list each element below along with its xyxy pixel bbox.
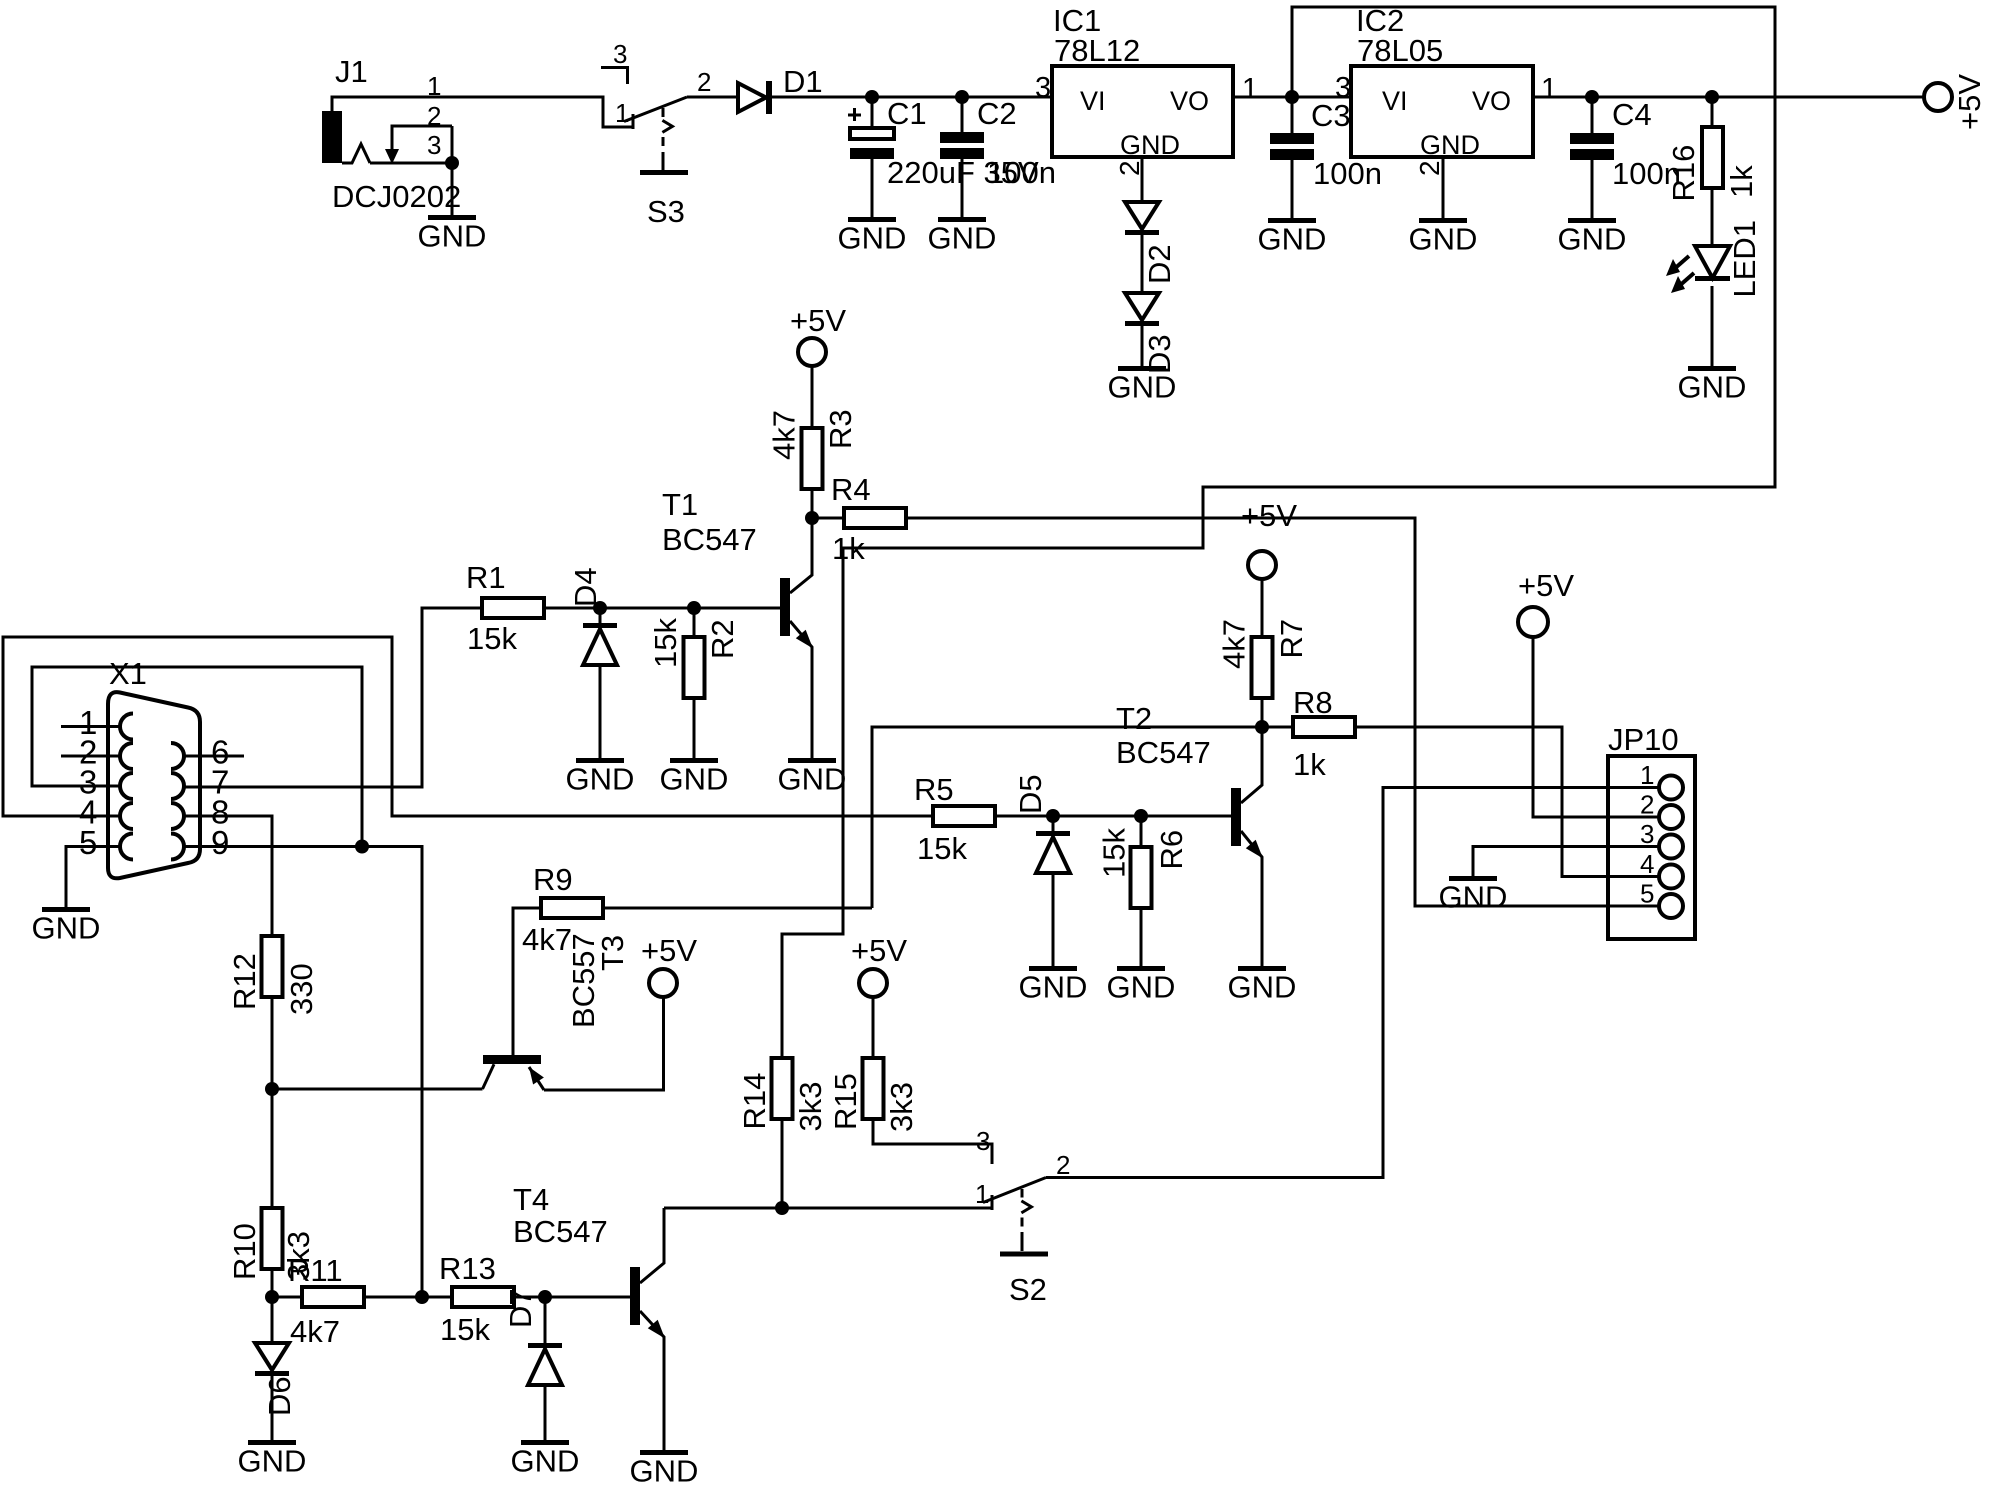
- capacitor C1 (electrolytic): [848, 97, 894, 217]
- wire IC2 GND pin to ground: [1442, 157, 1445, 218]
- svg-text:T3: T3: [595, 935, 630, 971]
- junction R10/R11/D6 node: [265, 1290, 279, 1304]
- svg-text:VO: VO: [1170, 86, 1209, 116]
- svg-text:100n: 100n: [1313, 156, 1382, 191]
- wire +5V to R7: [1261, 579, 1264, 637]
- capacitor C3: [1291, 97, 1294, 133]
- svg-text:R11: R11: [288, 1253, 343, 1288]
- X1 pin 7 wire (to R1 net): [182, 786, 183, 789]
- +5V terminal +5V main: [1924, 83, 1952, 111]
- svg-text:3: 3: [1035, 72, 1051, 104]
- svg-text:5: 5: [79, 824, 97, 861]
- wire D5 node down: [1052, 816, 1055, 831]
- switch S2 pin1 tick: [991, 1195, 994, 1210]
- svg-text:R13: R13: [439, 1251, 496, 1286]
- switch S2 actuator: [1000, 1189, 1048, 1257]
- ground D4: [566, 758, 635, 797]
- J1 pin 2 switch arm with arrow: [385, 126, 452, 164]
- svg-text:2: 2: [697, 67, 711, 97]
- switch S3 pin 3 stub: [601, 68, 628, 85]
- resistor R14 body: [772, 1058, 793, 1119]
- wire T4 collector to S2 pin 1: [664, 1207, 992, 1210]
- junction D5 node: [1046, 809, 1060, 823]
- resistor R12 body: [262, 936, 283, 997]
- ground IC2: [1409, 218, 1478, 257]
- X1 pin 8 contact: [171, 803, 184, 829]
- svg-text:+5V: +5V: [1241, 498, 1297, 533]
- LED LED1: [1666, 246, 1730, 293]
- switch S3 blade: [624, 97, 687, 122]
- switch S2 blade: [983, 1178, 1046, 1203]
- svg-text:+5V: +5V: [641, 933, 697, 968]
- svg-text:VO: VO: [1472, 86, 1511, 116]
- svg-text:GND: GND: [1258, 222, 1327, 257]
- svg-text:1: 1: [615, 98, 629, 128]
- wire J1 pin1 to switch S3 pin1: [332, 97, 633, 127]
- wire D6 to GND: [271, 1376, 274, 1440]
- svg-text:2: 2: [1114, 160, 1145, 176]
- junction D4 node: [593, 601, 607, 615]
- ground D6: [238, 1440, 307, 1479]
- svg-text:D6: D6: [262, 1376, 297, 1416]
- wire D4 node down: [599, 608, 602, 623]
- svg-text:GND: GND: [566, 762, 635, 797]
- svg-text:1: 1: [1242, 73, 1258, 105]
- svg-text:4k7: 4k7: [1217, 619, 1252, 669]
- junction X1 pin3/pin9 junction: [355, 840, 369, 854]
- JP10 pin 1 contact: [1659, 776, 1683, 800]
- svg-text:1k: 1k: [832, 531, 865, 566]
- T1 emitter wire with arrow: [790, 621, 813, 758]
- svg-text:R2: R2: [705, 619, 740, 659]
- svg-text:GND: GND: [1678, 370, 1747, 405]
- wire R6 node down: [1140, 816, 1143, 847]
- ground D3: [1108, 366, 1177, 405]
- X1 pin 7 contact: [171, 773, 184, 799]
- connector J1 DC jack body: [322, 111, 370, 163]
- svg-text:15k: 15k: [648, 618, 683, 668]
- svg-text:D2: D2: [1142, 244, 1177, 284]
- svg-text:GND: GND: [32, 911, 101, 946]
- ground D5: [1019, 966, 1088, 1005]
- T4 collector wire: [640, 1208, 664, 1283]
- svg-text:D1: D1: [783, 64, 823, 99]
- resistor R7 body: [1252, 637, 1273, 698]
- svg-text:1k: 1k: [1724, 165, 1759, 198]
- JP10 pin 2 contact: [1659, 805, 1683, 829]
- wire node to R4: [812, 517, 844, 520]
- wire node to R13: [422, 1296, 452, 1299]
- T3 collector wire: [483, 1064, 495, 1089]
- X1 pin 2 contact: [120, 743, 133, 769]
- svg-text:5: 5: [1640, 879, 1654, 909]
- JP10 pin 3 contact: [1659, 835, 1683, 859]
- svg-text:R4: R4: [831, 472, 871, 507]
- svg-text:3: 3: [976, 1126, 990, 1156]
- JP10 pin 5 contact: [1659, 894, 1683, 918]
- IC2 78L05 voltage regulator: [1351, 66, 1533, 157]
- wire R15 to S2 pin 3: [873, 1119, 992, 1164]
- svg-text:3: 3: [613, 39, 627, 69]
- T1 collector wire: [790, 518, 812, 593]
- svg-text:4: 4: [1640, 849, 1654, 879]
- wire R2 node down: [693, 608, 696, 637]
- transistor T4 (NPN): [630, 1267, 640, 1325]
- junction R6 node: [1134, 809, 1148, 823]
- junction T2 collector node: [1255, 720, 1269, 734]
- svg-text:100n: 100n: [987, 155, 1056, 190]
- svg-text:J1: J1: [335, 54, 368, 89]
- wire D7 node to T4 base: [545, 1296, 630, 1299]
- wire S3 pin2 to diode D1: [687, 96, 738, 99]
- svg-text:3: 3: [427, 130, 441, 160]
- ground T4: [630, 1450, 699, 1489]
- transistor T3 (PNP BC557) base bar: [483, 1055, 541, 1064]
- svg-text:R10: R10: [227, 1223, 262, 1280]
- wire R10 to R11 node: [271, 1269, 274, 1297]
- junction C3 node: [1285, 90, 1299, 104]
- T3 emitter wire with arrow: [529, 1067, 544, 1090]
- diode D2: [1125, 202, 1159, 235]
- X1 pin 9 contact: [171, 834, 184, 860]
- T2 collector wire: [1241, 727, 1262, 803]
- resistor R5 body: [933, 806, 995, 826]
- resistor R2 body: [684, 637, 705, 698]
- svg-text:GND: GND: [1019, 970, 1088, 1005]
- wire R5 to T2 base: [995, 815, 1231, 818]
- svg-text:+5V: +5V: [851, 933, 907, 968]
- wire C3 to GND: [1291, 160, 1294, 218]
- svg-text:VI: VI: [1080, 86, 1106, 116]
- ground C1: [838, 217, 907, 256]
- wire R16 to LED1: [1711, 188, 1714, 246]
- wire D7 to GND: [544, 1385, 547, 1440]
- capacitor C3 body: [1270, 133, 1314, 160]
- svg-text:4k7: 4k7: [767, 410, 802, 460]
- svg-text:R7: R7: [1274, 619, 1309, 659]
- svg-text:GND: GND: [630, 1454, 699, 1489]
- connector X1 (DB9) body: [108, 692, 200, 878]
- svg-text:GND: GND: [1228, 970, 1297, 1005]
- wire S2 pin2 up to JP10 pin 1: [1046, 788, 1659, 1178]
- ground JP10: [1439, 876, 1508, 915]
- svg-text:+5V: +5V: [1952, 74, 1987, 130]
- ground C3: [1258, 218, 1327, 257]
- svg-text:X1: X1: [109, 656, 147, 691]
- junction C4 node: [1585, 90, 1599, 104]
- svg-text:78L12: 78L12: [1054, 33, 1140, 68]
- +5V terminal T1 pull-up +5V: [798, 338, 826, 366]
- svg-text:T4: T4: [513, 1182, 549, 1217]
- resistor R15 body: [863, 1058, 884, 1119]
- junction D7/T4 base node: [538, 1290, 552, 1304]
- wire R6 to GND: [1140, 908, 1143, 966]
- capacitor C4 body: [1570, 133, 1614, 160]
- svg-text:+5V: +5V: [790, 303, 846, 338]
- svg-text:3k3: 3k3: [793, 1082, 828, 1132]
- wire D1 to IC1 VI (pin 3): [769, 96, 1052, 99]
- wire R9 to T3 base: [513, 908, 541, 1055]
- svg-text:GND: GND: [660, 762, 729, 797]
- IC1 78L12 voltage regulator: [1052, 66, 1233, 157]
- X1 pin 3 contact: [120, 773, 133, 799]
- X1 pin 5 contact: [120, 834, 133, 860]
- wire R4 to JP10 pin 5: [906, 518, 1659, 906]
- X1 pin 8 wire to R12: [182, 816, 272, 936]
- ground LED1: [1678, 366, 1747, 405]
- svg-text:S3: S3: [647, 194, 685, 229]
- junction C1 node: [865, 90, 879, 104]
- svg-text:2: 2: [1640, 790, 1654, 820]
- ground C2: [928, 217, 997, 256]
- wire IC2 VO to +5V terminal: [1533, 96, 1924, 99]
- svg-text:R8: R8: [1293, 685, 1333, 720]
- svg-text:+5V: +5V: [1518, 568, 1574, 603]
- svg-text:1: 1: [975, 1179, 989, 1209]
- wire JP10 pin 3 to GND: [1473, 847, 1659, 877]
- +5V terminal R15 +5V: [859, 969, 887, 997]
- capacitor C4: [1591, 97, 1594, 133]
- svg-text:S2: S2: [1009, 1272, 1047, 1307]
- diode D1: [738, 81, 769, 114]
- ground C4: [1558, 218, 1627, 257]
- ground R6: [1107, 966, 1176, 1005]
- ground J1: [418, 215, 487, 254]
- svg-text:78L05: 78L05: [1357, 33, 1443, 68]
- svg-text:15k: 15k: [467, 621, 517, 656]
- svg-text:GND: GND: [1420, 130, 1480, 160]
- svg-text:GND: GND: [1120, 130, 1180, 160]
- svg-text:15k: 15k: [917, 831, 967, 866]
- svg-text:R9: R9: [533, 862, 573, 897]
- wire node down to R10: [271, 1089, 274, 1208]
- resistor R4 body: [844, 508, 906, 528]
- wire +5V to R3: [811, 366, 814, 428]
- wire R11 node to R11: [272, 1296, 302, 1299]
- svg-text:GND: GND: [838, 221, 907, 256]
- svg-text:2: 2: [1056, 1150, 1070, 1180]
- wire R8 to JP10 pin 4: [1355, 727, 1659, 877]
- svg-text:LED1: LED1: [1727, 220, 1762, 298]
- transistor T1 (NPN): [780, 578, 790, 636]
- switch S3 actuator: [640, 108, 688, 175]
- transistor T2 (NPN): [1231, 788, 1241, 846]
- capacitor C2: [961, 97, 964, 132]
- diode D7: [528, 1343, 562, 1385]
- diode D5: [1036, 831, 1070, 873]
- connector JP10 body: [1608, 756, 1695, 939]
- svg-text:15k: 15k: [1097, 828, 1132, 878]
- svg-text:1k: 1k: [1293, 747, 1326, 782]
- wire T2 collector node to R8: [1262, 726, 1293, 729]
- svg-text:JP10: JP10: [1608, 722, 1679, 757]
- svg-text:9: 9: [211, 824, 229, 861]
- svg-text:3: 3: [1335, 72, 1351, 104]
- svg-text:R15: R15: [828, 1073, 863, 1130]
- junction T3 collector node: [265, 1082, 279, 1096]
- X1 pin 6 stub wire: [182, 755, 244, 758]
- wire T3 collector to R10/R12 node: [272, 1088, 483, 1091]
- wire R3 to T1 collector node: [811, 489, 814, 518]
- wire C2 to GND: [961, 159, 964, 217]
- junction R2 node: [687, 601, 701, 615]
- svg-text:D7: D7: [503, 1288, 538, 1328]
- svg-text:D5: D5: [1013, 774, 1048, 814]
- wire +12V rail loop (C3 node up and over to R4 net): [782, 7, 1775, 1058]
- svg-text:GND: GND: [1558, 222, 1627, 257]
- svg-text:C1: C1: [887, 96, 927, 131]
- diode D6: [255, 1343, 289, 1376]
- diode D3: [1125, 293, 1159, 326]
- svg-text:4k7: 4k7: [522, 922, 572, 957]
- wire R2 to GND: [693, 698, 696, 758]
- X1 pin 4 contact: [120, 803, 133, 829]
- resistor R11 body: [302, 1287, 364, 1307]
- svg-text:4k7: 4k7: [290, 1314, 340, 1349]
- svg-text:GND: GND: [1107, 970, 1176, 1005]
- resistor R1 body: [482, 598, 544, 618]
- svg-text:DCJ0202: DCJ0202: [332, 179, 461, 214]
- X1 pin 6 contact: [171, 743, 184, 769]
- wire IC1 VO to C3 node: [1233, 96, 1351, 99]
- junction J1 pin2/3 junction: [445, 156, 459, 170]
- svg-text:15k: 15k: [440, 1312, 490, 1347]
- ground X1 pin5: [32, 907, 101, 946]
- wire D4 to GND: [599, 665, 602, 758]
- svg-text:GND: GND: [778, 762, 847, 797]
- ground D7: [511, 1440, 580, 1479]
- ground R2: [660, 758, 729, 797]
- diode D4: [583, 623, 617, 665]
- X1 pin 3 wire loop to pin 9 net: [32, 667, 362, 847]
- svg-text:1: 1: [1640, 760, 1654, 790]
- svg-text:2: 2: [427, 101, 441, 131]
- wire R1 to T1 base: [544, 607, 780, 610]
- svg-text:R5: R5: [914, 772, 954, 807]
- wire D2 to D3: [1141, 235, 1144, 293]
- resistor R6 body: [1131, 847, 1152, 908]
- svg-text:1: 1: [1541, 73, 1557, 105]
- T4 emitter wire with arrow: [640, 1311, 665, 1450]
- X1 pin 9 wire down to R11 net: [182, 847, 422, 1298]
- svg-text:3k3: 3k3: [884, 1082, 919, 1132]
- JP10 pin 4 contact: [1659, 865, 1683, 889]
- X1 pin 4 wire loop to R5: [3, 637, 933, 816]
- svg-text:VI: VI: [1382, 86, 1408, 116]
- svg-text:GND: GND: [1108, 370, 1177, 405]
- +5V terminal R7 +5V: [1248, 551, 1276, 579]
- junction C2 node: [955, 90, 969, 104]
- svg-text:R12: R12: [227, 953, 262, 1010]
- svg-text:D4: D4: [568, 567, 603, 607]
- resistor R16 body: [1702, 127, 1723, 188]
- +5V terminal JP10 +5V: [1518, 607, 1548, 637]
- X1 pin 5 wire to GND: [66, 847, 122, 908]
- resistor R13 body: [452, 1287, 514, 1307]
- svg-text:GND: GND: [1409, 222, 1478, 257]
- ground T1: [778, 758, 847, 797]
- T2 emitter wire with arrow: [1241, 831, 1263, 966]
- wire T3 emitter to +5V: [544, 997, 664, 1090]
- svg-text:R3: R3: [823, 409, 858, 449]
- wire X1 pin7 to R1: [183, 608, 482, 787]
- svg-text:2: 2: [1414, 160, 1445, 176]
- svg-text:GND: GND: [418, 219, 487, 254]
- svg-text:BC547: BC547: [1116, 735, 1211, 770]
- svg-text:BC547: BC547: [513, 1214, 608, 1249]
- svg-text:T2: T2: [1116, 701, 1152, 736]
- X1 pin 1 stub wire: [61, 725, 122, 728]
- wire LED1 to GND: [1711, 286, 1714, 366]
- wire R9 to T2 collector net: [603, 907, 872, 910]
- wire T2 collector net to R9 (left drop): [872, 727, 1262, 908]
- junction R11/R13 node: [415, 1290, 429, 1304]
- svg-text:GND: GND: [238, 1444, 307, 1479]
- junction R14/T4/S2 node: [775, 1201, 789, 1215]
- junction R16 node: [1705, 90, 1719, 104]
- wire R14 to T4 collector net: [781, 1119, 784, 1208]
- wire R16 node down to R16: [1711, 97, 1714, 127]
- junction T1 collector node: [805, 511, 819, 525]
- wire J1 pin 3 to ground node: [370, 162, 452, 165]
- wire R12 to T3 collector node: [271, 997, 274, 1089]
- resistor R9 body: [541, 898, 603, 918]
- svg-text:330: 330: [284, 963, 319, 1015]
- wire D5 to GND: [1052, 873, 1055, 966]
- capacitor C2 body: [940, 132, 984, 159]
- wire J1 pins 2/3 down to GND: [451, 126, 454, 215]
- wire D3 to GND: [1141, 326, 1144, 366]
- X1 pin 1 contact: [120, 714, 133, 740]
- resistor R8 body: [1293, 717, 1355, 737]
- ground T2: [1228, 966, 1297, 1005]
- wire +5V to JP10 pin 2: [1533, 637, 1659, 817]
- wire D7 node down: [544, 1297, 547, 1343]
- svg-text:R1: R1: [466, 560, 506, 595]
- svg-text:R6: R6: [1154, 830, 1189, 870]
- switch S3 pin1 tick: [632, 114, 635, 129]
- wire R7 to T2 collector node: [1261, 698, 1264, 727]
- resistor R10 body: [262, 1208, 283, 1269]
- wire R13 to D7 node: [514, 1296, 545, 1299]
- wire +5V to R15: [872, 997, 875, 1058]
- svg-text:C4: C4: [1612, 97, 1652, 132]
- svg-text:R14: R14: [737, 1073, 772, 1130]
- svg-text:GND: GND: [928, 221, 997, 256]
- resistor R3 body: [802, 428, 823, 489]
- svg-text:3: 3: [1640, 819, 1654, 849]
- wire IC1 GND pin to D2: [1141, 157, 1144, 202]
- wire R11 to pin9-net node: [364, 1296, 422, 1299]
- wire C4 to GND: [1591, 160, 1594, 218]
- svg-text:BC547: BC547: [662, 522, 757, 557]
- X1 pin 2 stub wire: [61, 755, 122, 758]
- svg-text:R16: R16: [1666, 145, 1701, 202]
- svg-text:GND: GND: [511, 1444, 580, 1479]
- +5V terminal T3 +5V: [649, 969, 677, 997]
- svg-text:C2: C2: [977, 96, 1017, 131]
- svg-text:T1: T1: [662, 487, 698, 522]
- wire D6 from node down: [271, 1297, 274, 1343]
- svg-text:GND: GND: [1439, 880, 1508, 915]
